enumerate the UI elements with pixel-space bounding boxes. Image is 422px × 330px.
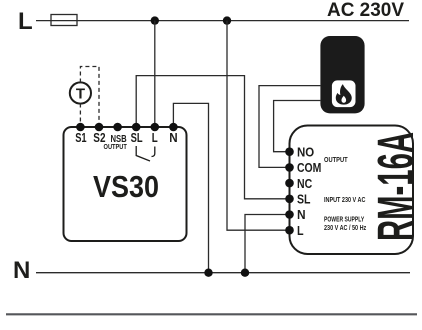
svg-text:SL: SL: [131, 131, 143, 145]
svg-text:COM: COM: [297, 161, 321, 175]
terminal S2: [95, 123, 104, 132]
svg-text:VS30: VS30: [93, 169, 159, 204]
footer rule: [6, 313, 417, 315]
svg-text:S1: S1: [75, 131, 86, 145]
boiler flame badge: [332, 80, 356, 107]
junction node N2: [241, 269, 249, 277]
svg-text:230 V AC / 50 Hz: 230 V AC / 50 Hz: [324, 223, 367, 232]
svg-text:AC 230V: AC 230V: [327, 0, 404, 21]
terminal S1: [76, 123, 85, 132]
thermostat sensor T: [70, 82, 91, 103]
module VS30: [64, 127, 187, 241]
module RM-16A: [290, 126, 414, 255]
flame icon: [336, 84, 352, 105]
svg-text:N: N: [169, 131, 177, 145]
wire VS30 SL to RM SL: [136, 76, 289, 199]
svg-text:NC: NC: [297, 177, 312, 191]
svg-text:T: T: [76, 86, 85, 103]
terminal SL (RM): [285, 195, 294, 204]
junction node N1: [204, 269, 212, 277]
svg-text:N: N: [13, 257, 30, 284]
svg-text:OUTPUT: OUTPUT: [104, 142, 128, 151]
wire RM NO to boiler: [274, 101, 321, 152]
terminal L (VS30): [151, 123, 160, 132]
wire L1 to VS30 L: [154, 21, 156, 127]
terminal NC: [285, 179, 294, 188]
svg-text:SL: SL: [297, 193, 311, 207]
terminal COM: [285, 163, 294, 172]
boiler (heating device): [320, 36, 364, 113]
svg-text:N: N: [297, 208, 306, 222]
svg-text:RM-16A: RM-16A: [367, 132, 422, 241]
svg-text:L: L: [18, 8, 33, 35]
wire L2 to RM L: [227, 21, 290, 231]
svg-text:L: L: [152, 131, 158, 145]
terminal NO: [285, 147, 294, 156]
wire dashed sensor to S1: [79, 104, 81, 127]
flame inner: [341, 96, 346, 103]
terminal N (VS30): [169, 123, 178, 132]
wire L rail: [36, 20, 409, 22]
svg-text:INPUT 230 V AC: INPUT 230 V AC: [324, 195, 365, 204]
svg-text:OUTPUT: OUTPUT: [324, 155, 348, 164]
wire RM N to N rail: [245, 215, 290, 273]
wire N rail: [36, 272, 410, 274]
terminal N (RM): [285, 210, 294, 219]
junction node L1: [151, 16, 159, 24]
junction node L2: [223, 16, 231, 24]
terminal NSB: [113, 123, 122, 132]
wire RM COM to boiler: [259, 86, 320, 168]
wire VS30 N to N rail: [173, 103, 208, 272]
relay contact switch (VS30 internal): [136, 146, 155, 161]
svg-text:L: L: [297, 224, 304, 238]
fuse F1: [51, 15, 77, 26]
wire dashed sensor to S2: [80, 67, 99, 127]
svg-text:NO: NO: [297, 145, 314, 159]
terminal SL (VS30): [132, 123, 141, 132]
terminal L (RM): [285, 226, 294, 235]
